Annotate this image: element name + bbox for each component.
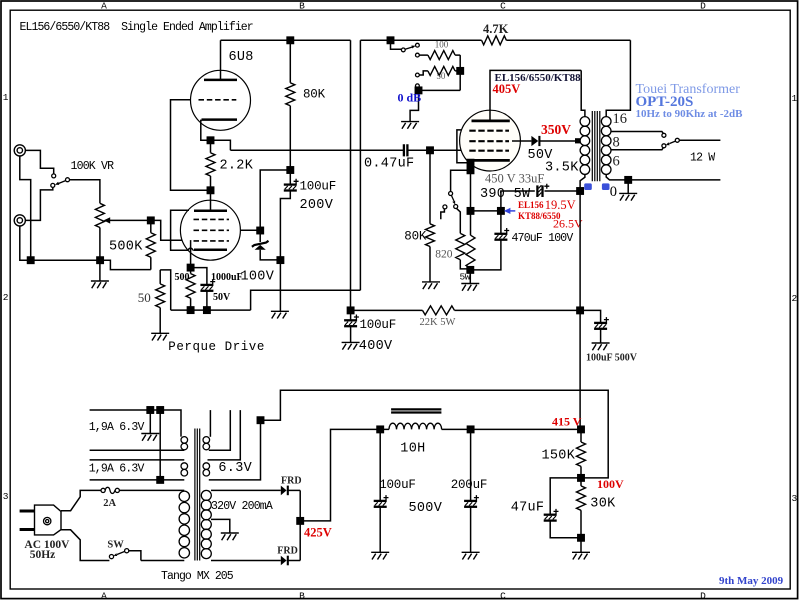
bias selector arm [451, 195, 455, 204]
wire to ground [627, 180, 629, 194]
resistor 500K [146, 220, 155, 269]
blue marker right [602, 183, 610, 190]
svg-text:100V: 100V [597, 477, 624, 491]
output grid g1 dashed [469, 150, 509, 152]
svg-text:0 dB: 0 dB [398, 91, 422, 105]
svg-text:12 W: 12 W [690, 152, 715, 165]
tube EL156/6550/KT88 envelope [460, 110, 521, 171]
node cathode network bottom [467, 267, 473, 273]
resistor 50 feedback injection [156, 270, 165, 333]
wire grid feed from VR [151, 220, 182, 240]
wire plug to switch [61, 530, 109, 561]
node jack bus junction [28, 257, 34, 263]
svg-text:450 V 33uF: 450 V 33uF [485, 172, 544, 186]
wire cathode to bias selector [451, 170, 471, 191]
svg-text:19.5V: 19.5V [545, 198, 576, 212]
wire 6.3V right2 bottom to bias [209, 420, 261, 480]
ground secondary [619, 193, 637, 200]
resistor 80K grid leak [426, 150, 435, 282]
node bracket-cathode [467, 160, 473, 166]
AC plug body [35, 505, 62, 535]
ground 100uF 400V [342, 342, 360, 349]
wire PSU rail [380, 428, 581, 430]
resistor 80K driver plate load [286, 40, 295, 170]
wire heater bias line [261, 390, 609, 478]
svg-text:350V: 350V [541, 122, 571, 137]
wire tap to selector pivot [391, 40, 402, 49]
wire J1 sleeve ground bus [20, 156, 31, 260]
wire cathode to 1000uF [191, 268, 207, 285]
capacitor 0.47uF [404, 144, 408, 156]
wire pot bottom to bus [99, 228, 101, 282]
capacitor 200uF [464, 429, 479, 552]
triode cathode lead [201, 120, 211, 141]
capacitor 100uF PSU [374, 429, 389, 552]
wire zener node to ground [279, 260, 281, 311]
output grid g3 dashed [469, 130, 509, 132]
potentiometer 100K VR [95, 203, 104, 227]
ground divider [572, 552, 590, 559]
node grid leak top [427, 147, 433, 153]
wire J2 sleeve to bus [20, 226, 100, 260]
switch SW arm [114, 551, 125, 556]
feedback selector arm [405, 46, 415, 50]
resistor 100 feedback [419, 51, 460, 60]
diode FRD bottom [281, 556, 300, 566]
pentode cathode bar [194, 249, 227, 252]
resistor 5W cathode [466, 211, 475, 270]
output tube plate lead and top wire [490, 70, 581, 121]
speaker selector circles [662, 133, 679, 148]
OPT secondary winding [601, 117, 611, 175]
node heater bias join [257, 417, 263, 423]
output tube plate bar [472, 120, 510, 123]
svg-text:3: 3 [3, 491, 9, 502]
svg-text:C: C [500, 591, 506, 600]
PT HT winding 320V [201, 490, 211, 558]
wire g2 to zener node [241, 229, 261, 231]
wire to heater ground [149, 410, 151, 434]
choke 10H coil [389, 423, 442, 429]
svg-text:0: 0 [610, 184, 617, 200]
svg-text:425V: 425V [304, 526, 332, 540]
resistor 30K [577, 478, 586, 538]
PT winding 6.3V left 2 [181, 463, 188, 476]
svg-text:100uF: 100uF [300, 180, 337, 194]
ground 100uF 500V [592, 343, 610, 350]
blue marker left [584, 183, 592, 190]
resistor 820 [456, 208, 471, 269]
svg-text:200uF: 200uF [451, 478, 488, 492]
wire bottom to 50 resistor [160, 270, 171, 310]
wire plate to OPT primary [581, 70, 585, 116]
wire to ground [580, 538, 582, 553]
wire to ground [469, 270, 471, 284]
svg-text:415 V: 415 V [552, 415, 582, 429]
resistor 4.7K [482, 36, 507, 45]
tube 6U8 pentode envelope [180, 200, 240, 260]
node 30K bottom [578, 535, 584, 541]
pot wiper arrow [104, 217, 151, 223]
resistor 500 cathode [186, 268, 195, 311]
pentode cathode lead [190, 240, 192, 268]
pentode grid g1 dashed [194, 240, 230, 242]
svg-text:820: 820 [435, 249, 453, 261]
svg-text:100K VR: 100K VR [71, 160, 115, 173]
svg-text:1,9A 6.3V: 1,9A 6.3V [89, 421, 145, 434]
output cathode lead [470, 160, 472, 211]
bias selector circles [443, 192, 458, 209]
zener diode screen regulator [252, 231, 281, 260]
svg-text:500V: 500V [409, 501, 443, 516]
node screen grid [257, 227, 263, 233]
wire triode grid to pentode plate node [171, 100, 211, 191]
svg-text:405V: 405V [493, 82, 521, 96]
shield bracket [171, 210, 194, 250]
svg-text:B: B [299, 591, 305, 600]
fuse 2A [101, 487, 119, 493]
wire 425V riser to choke [300, 429, 380, 521]
svg-text:6U8: 6U8 [229, 50, 254, 65]
AC plug center mark [44, 517, 51, 524]
wire J1 pin to selector [25, 150, 53, 173]
svg-text:100: 100 [435, 40, 449, 50]
node pot bottom [97, 257, 103, 263]
output cathode bar [472, 159, 510, 162]
wire HT top lead [211, 489, 281, 491]
input selector contact circles [51, 174, 70, 188]
wire HT center tap [211, 519, 230, 533]
ground cathode network [461, 284, 479, 291]
svg-text:1000uF: 1000uF [211, 272, 243, 283]
svg-text:200V: 200V [300, 198, 334, 213]
wire 0dB contact to common [417, 88, 460, 91]
wire network bottom to feedback V2 [251, 290, 361, 310]
node main B+ takeoff [577, 307, 583, 313]
svg-text:22K 5W: 22K 5W [420, 317, 456, 328]
resistor 2.2K [206, 140, 215, 190]
node 100V divider [578, 475, 584, 481]
ground below pot [91, 281, 109, 288]
wire triode plate rail [221, 39, 351, 41]
PT primary winding [179, 491, 189, 558]
svg-text:50: 50 [138, 290, 151, 305]
svg-text:1: 1 [791, 93, 797, 104]
svg-text:2.2K: 2.2K [220, 159, 254, 174]
svg-text:6: 6 [613, 154, 620, 170]
diode FRD top [281, 486, 300, 496]
wire plug to fuse [61, 490, 101, 510]
pentode grid g3 dashed [194, 218, 230, 220]
OPT primary winding [580, 117, 590, 175]
svg-text:100uF: 100uF [379, 478, 416, 492]
svg-text:500K: 500K [109, 240, 143, 255]
node 80K top [287, 37, 293, 43]
triode grid dashed line [199, 99, 237, 101]
ground below 80K [422, 282, 440, 289]
triode plate bar [204, 79, 237, 82]
svg-text:50: 50 [436, 71, 446, 81]
wire J2 pin to selector [25, 188, 52, 221]
svg-text:9th May 2009: 9th May 2009 [719, 575, 784, 587]
pentode grid g2 dashed [194, 229, 230, 231]
svg-text:100uF: 100uF [360, 318, 397, 332]
wire g2 to UL tap with diode [512, 136, 580, 146]
svg-text:470uF 100V: 470uF 100V [512, 232, 574, 245]
triode cathode bar [202, 118, 238, 121]
bias selector unused stub [441, 209, 445, 219]
wire primary top from fuse [119, 489, 184, 491]
ground 100uF PSU [371, 552, 389, 559]
resistor 50 feedback [419, 66, 460, 75]
ground heater [141, 434, 159, 441]
output shield bracket [457, 130, 471, 163]
wire coupling line [230, 149, 469, 151]
node 500 bottom [187, 307, 193, 313]
wire 0dB to ground [410, 90, 418, 121]
OPT core [592, 111, 600, 181]
node heater ground tap [147, 407, 153, 413]
AC plug prongs [20, 511, 35, 530]
wire 6.3V right1 bottom stub [209, 410, 231, 450]
svg-text:400V: 400V [359, 339, 393, 354]
svg-text:320V 200mA: 320V 200mA [211, 500, 273, 513]
svg-text:47uF: 47uF [511, 501, 545, 516]
svg-text:FRD: FRD [281, 475, 302, 486]
wire cathode 390 5W branch [501, 191, 535, 211]
output grid g2 dashed [469, 140, 509, 142]
node secondary ground [625, 177, 631, 183]
node triode cathode [207, 137, 213, 143]
svg-text:Tango MX 205: Tango MX 205 [161, 570, 234, 583]
ground 200uF [462, 552, 480, 559]
svg-text:Perque Drive: Perque Drive [168, 340, 265, 354]
wire cathode to 470uF [471, 210, 501, 212]
svg-text:100V: 100V [241, 270, 275, 285]
svg-text:2: 2 [3, 292, 9, 303]
wire V1 plate supply drop [350, 40, 352, 310]
svg-text:6.3V: 6.3V [218, 461, 252, 476]
input selector arm [55, 181, 66, 185]
svg-text:8: 8 [613, 135, 620, 151]
svg-text:80K: 80K [303, 88, 326, 102]
wire bus to 500K bottom [100, 260, 151, 269]
node 470uF top [498, 208, 504, 214]
wire screen feed to zener [260, 170, 290, 231]
node 33uF to B+ [577, 188, 583, 194]
PT core [195, 429, 200, 561]
svg-text:A: A [101, 591, 107, 600]
wire driver B+ feed [351, 309, 580, 311]
ground center tap [221, 533, 239, 540]
svg-text:100uF 500V: 100uF 500V [586, 353, 638, 364]
tube 6U8 triode envelope [191, 70, 251, 130]
svg-text:B: B [299, 0, 305, 11]
node 1000uF bottom [204, 307, 210, 313]
wire heater feed 2 [90, 459, 185, 461]
capacitor 100uF 400V [344, 310, 359, 342]
input jack J1 [14, 145, 25, 156]
node 425V rail [377, 426, 383, 432]
wire primary bottom to B+ rail [580, 174, 585, 429]
wire tap 8 [611, 132, 664, 134]
svg-text:EL156/6550/KT88 Single Ended: EL156/6550/KT88 Single Ended Amplifier [20, 21, 253, 34]
svg-text:50V: 50V [213, 292, 231, 303]
node pentode plate / triode grid [207, 187, 213, 193]
svg-text:4.7K: 4.7K [483, 22, 509, 36]
capacitor 1000uF 50V [200, 279, 215, 310]
capacitor 100uF 500V [580, 310, 609, 343]
wire secondary top 16 tap [606, 40, 630, 116]
node 425V [297, 518, 303, 524]
node 200uF tap [467, 426, 473, 432]
wire feedback rail [360, 39, 630, 41]
pentode plate lead [210, 190, 212, 210]
node wiper junction [148, 217, 154, 223]
wire heater return 2 [90, 479, 185, 481]
PT winding 6.3V right 1 [203, 437, 210, 450]
node cathode selector join [467, 167, 473, 173]
node 0dB [415, 87, 421, 93]
svg-text:3: 3 [791, 493, 797, 504]
svg-text:D: D [700, 0, 706, 11]
svg-text:A: A [101, 0, 107, 11]
svg-text:10H: 10H [400, 442, 425, 457]
svg-text:50Hz: 50Hz [30, 549, 56, 561]
capacitor 33uF 450V [537, 184, 580, 197]
resistor 150K [577, 429, 586, 478]
node pentode cathode [187, 264, 193, 270]
choke 10H core [391, 409, 441, 412]
svg-text:80K: 80K [404, 230, 427, 244]
wire 6.3V right1 top stub [209, 410, 211, 437]
node output cathode [467, 208, 473, 214]
wire speaker hot [679, 139, 720, 141]
feedback selector circles [401, 43, 419, 87]
blue arrow cathode voltage [504, 208, 515, 214]
svg-text:500: 500 [175, 272, 190, 283]
wire cathode output jog [211, 140, 231, 150]
svg-text:EL156: EL156 [518, 200, 544, 210]
node 415V [578, 426, 584, 432]
node driver B+ [347, 307, 353, 313]
wire secondary bottom 0 tap [606, 174, 720, 180]
input jack J2 [14, 215, 25, 226]
svg-text:D: D [700, 591, 706, 600]
svg-text:FRD: FRD [277, 546, 298, 557]
svg-text:0.47uF: 0.47uF [364, 157, 414, 172]
wire heater bus top [90, 410, 181, 437]
node feedback selector tap [387, 37, 393, 43]
svg-text:1: 1 [3, 92, 9, 103]
speaker selector arm [666, 141, 676, 145]
svg-text:2A: 2A [103, 498, 116, 509]
wire 6.3V right2 top stub [208, 410, 241, 460]
svg-text:3.5K: 3.5K [545, 161, 579, 176]
svg-text:150K: 150K [542, 449, 576, 464]
wire HT bottom lead [211, 560, 281, 562]
pentode plate bar [194, 209, 227, 212]
svg-text:16: 16 [613, 111, 628, 127]
switch SW circles [109, 549, 128, 559]
svg-text:1,9A 6.3V: 1,9A 6.3V [89, 462, 145, 475]
node zener bottom / cap return [277, 257, 283, 263]
ground below zener node [271, 311, 289, 318]
capacitor 100uF 200V [280, 170, 298, 260]
svg-text:10Hz to 90Khz at -2dB: 10Hz to 90Khz at -2dB [636, 108, 744, 120]
svg-text:C: C [500, 0, 506, 11]
wire selector to volume pot [70, 180, 100, 204]
capacitor 470uF 100V [470, 211, 509, 270]
node 80K bottom / screen feed [287, 167, 293, 173]
wire heater bus drop [159, 410, 161, 480]
node 100/50 join [457, 68, 463, 74]
ground below 50 [151, 333, 169, 340]
wire tap 6 [611, 148, 664, 150]
wire feedback common vertical [459, 55, 461, 90]
node heater drop join [157, 477, 163, 483]
svg-text:SW: SW [107, 540, 124, 551]
PT winding 6.3V right 2 [203, 463, 210, 476]
svg-text:30K: 30K [590, 497, 616, 512]
triode plate lead [220, 40, 222, 80]
node heater down tap [157, 407, 163, 413]
svg-text:2: 2 [791, 293, 797, 304]
svg-text:26.5V: 26.5V [553, 217, 583, 231]
resistor 22K 5W [423, 306, 455, 315]
wire heater return 1 [90, 449, 185, 451]
wire V2 feedback drop [359, 40, 361, 290]
wire rectifier join [299, 490, 301, 560]
wire switch to primary [129, 551, 141, 561]
wire primary bottom from SW [141, 560, 184, 562]
PT winding 6.3V left 1 [181, 437, 188, 450]
wire cathode network bottom [171, 309, 251, 311]
ground feedback [401, 122, 419, 129]
capacitor 47uF [544, 478, 581, 538]
